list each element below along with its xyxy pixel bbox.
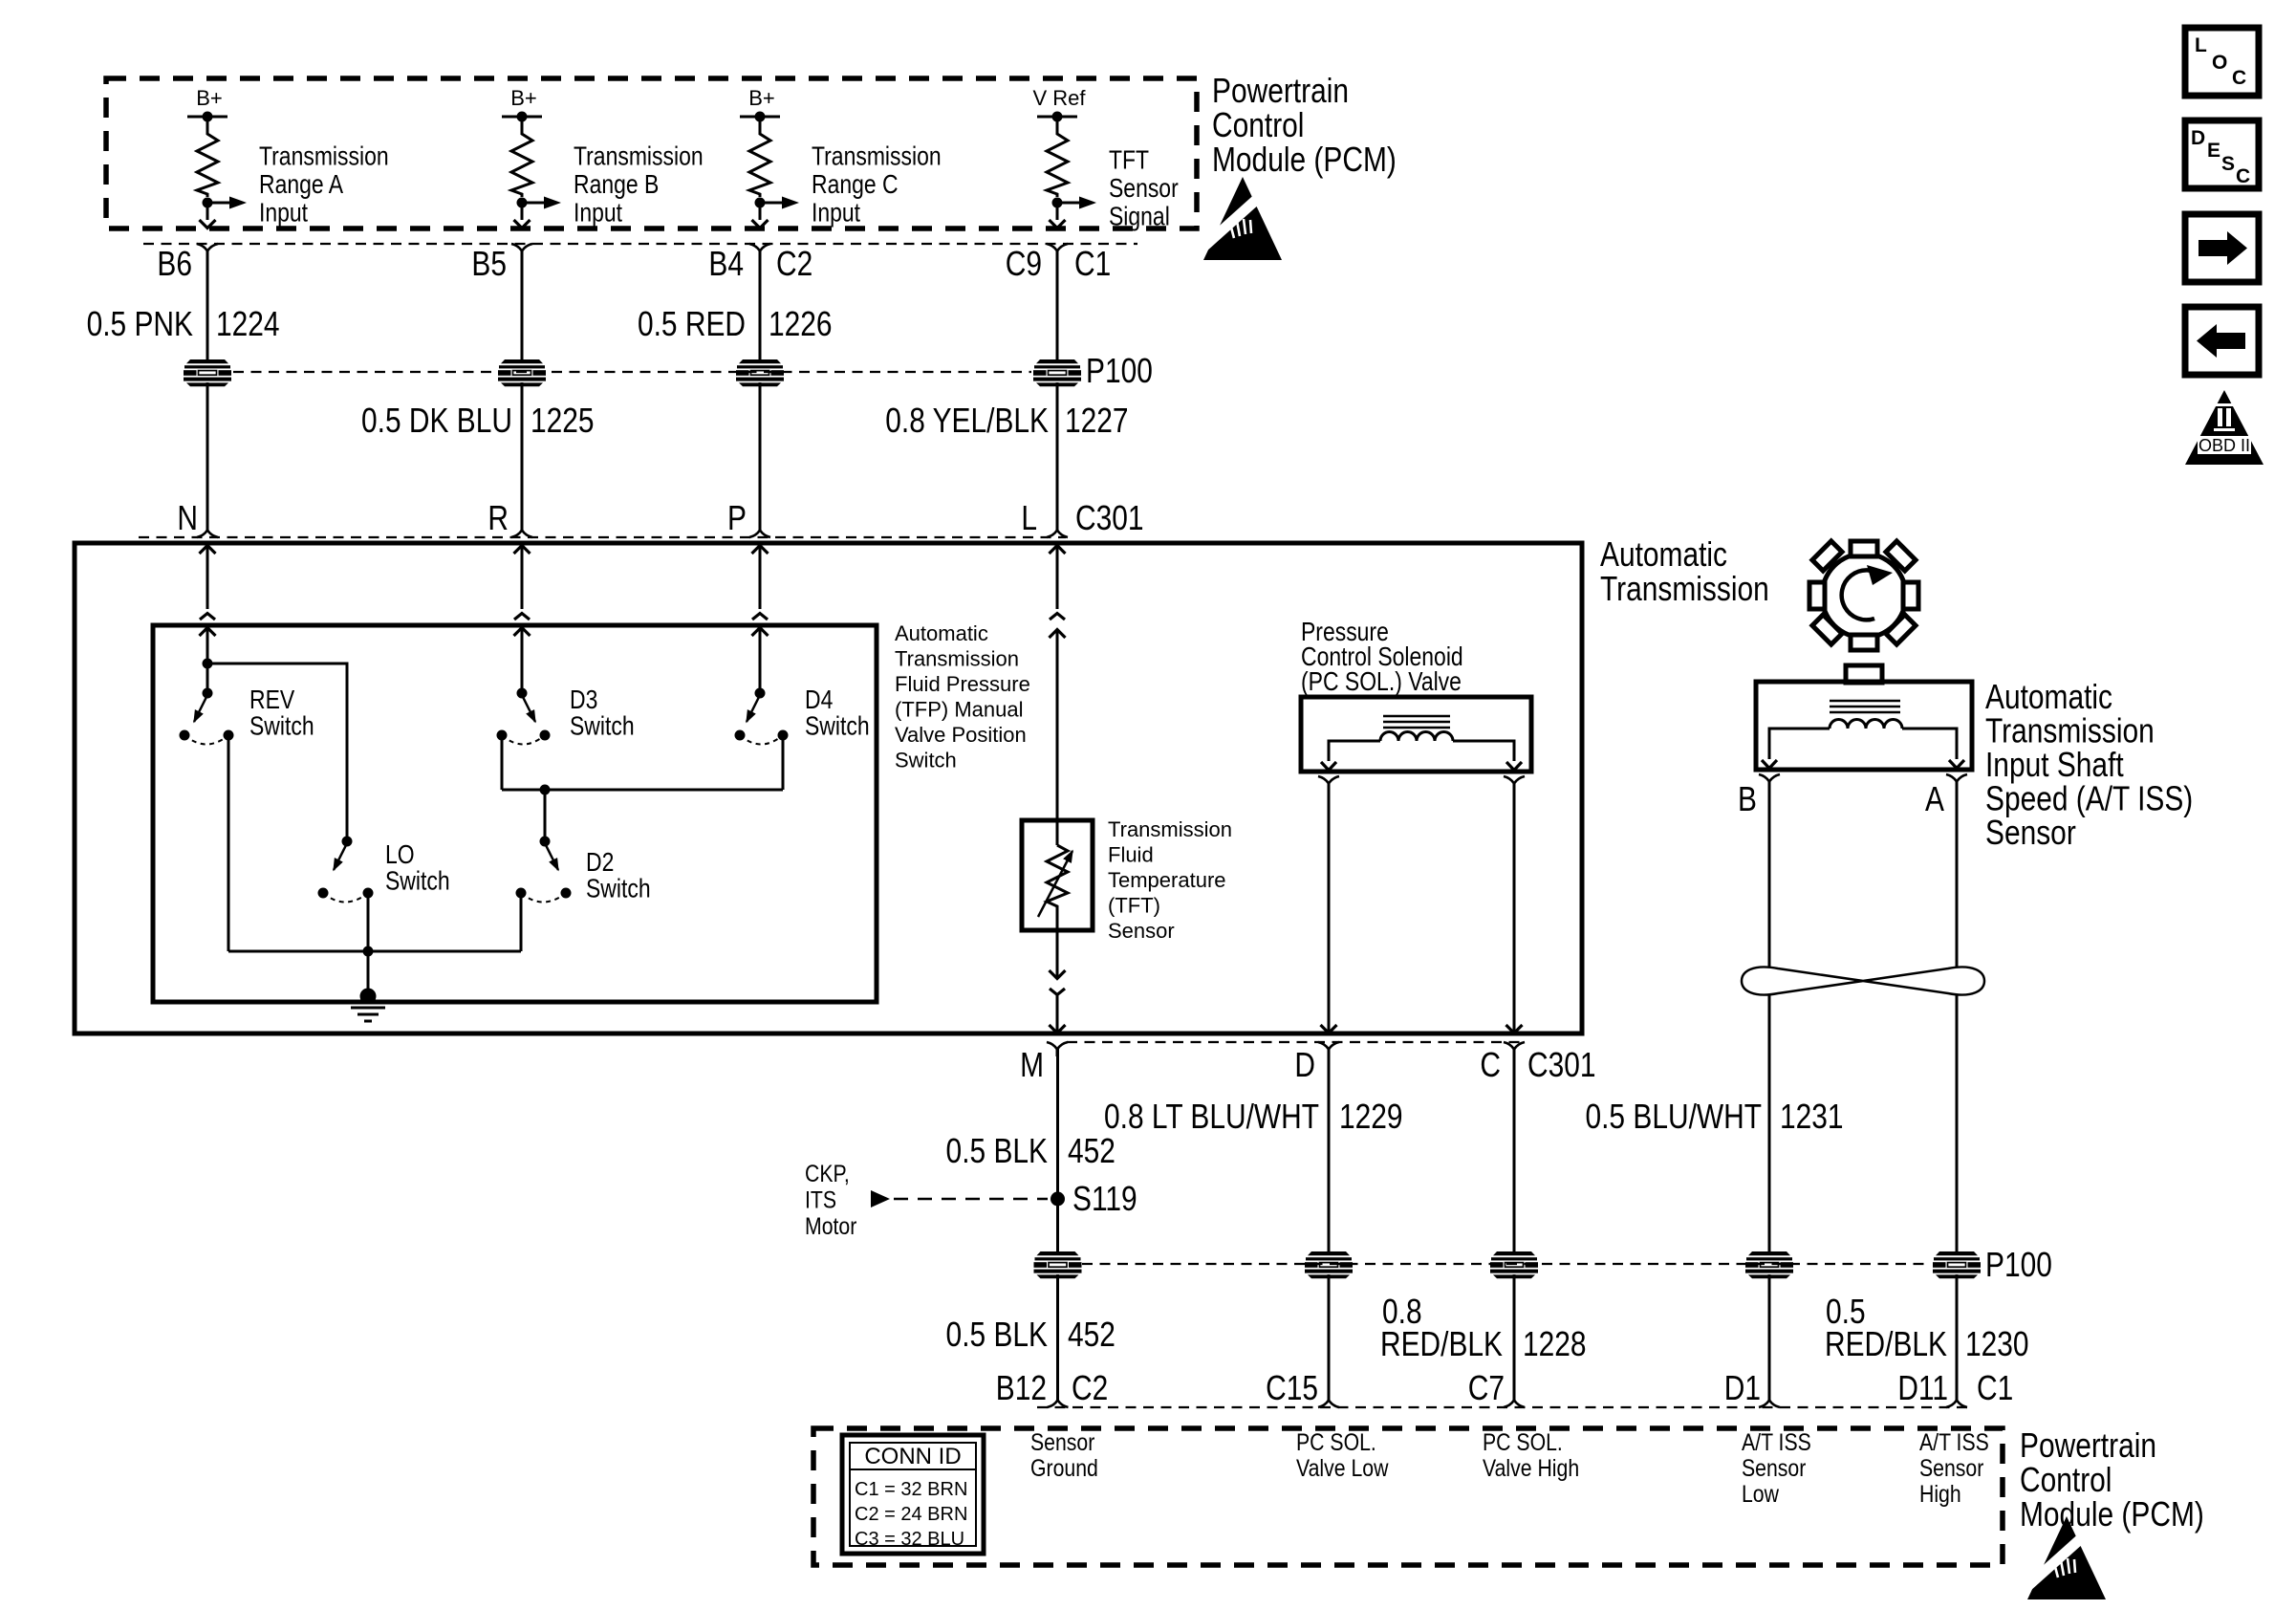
connector fork P xyxy=(749,523,770,537)
D4 switch pivot xyxy=(755,688,766,699)
connector line C301 bottom (thin dashed) xyxy=(1067,1041,1522,1043)
connector fork PC SOL low xyxy=(1318,776,1339,791)
ISS lead A xyxy=(1902,729,1957,759)
inline connector P100 xyxy=(184,359,231,386)
D4 switch blade xyxy=(747,695,760,722)
D2 switch contacts xyxy=(516,888,527,899)
svg-text:(TFP) Manual: (TFP) Manual xyxy=(895,698,1023,722)
PCM connector line bottom (thin dashed) xyxy=(1037,1406,1971,1408)
wire to P100 xyxy=(1056,251,1059,359)
svg-text:Automatic: Automatic xyxy=(1600,535,1727,574)
twisted pair symbol xyxy=(1742,967,1984,994)
svg-text:Valve High: Valve High xyxy=(1483,1454,1579,1481)
wire N into TFP switch xyxy=(200,628,216,637)
svg-text:L: L xyxy=(2195,34,2207,56)
svg-text:C2: C2 xyxy=(1072,1369,1108,1407)
svg-text:Fluid: Fluid xyxy=(1108,843,1154,867)
inline connector P100 xyxy=(1933,1251,1981,1278)
connector fork C xyxy=(1504,1042,1525,1056)
resistor Transmission Range C Input xyxy=(749,117,770,197)
svg-text:Transmission: Transmission xyxy=(1108,817,1232,841)
wire L to TFT sensor xyxy=(1050,630,1066,639)
svg-text:0.8 LT BLU/WHT: 0.8 LT BLU/WHT xyxy=(1104,1098,1319,1136)
svg-text:Switch: Switch xyxy=(805,711,870,741)
svg-text:CONN ID: CONN ID xyxy=(864,1444,961,1469)
connector fork pin B5 xyxy=(511,244,532,258)
svg-text:Transmission: Transmission xyxy=(259,141,389,171)
ISS lead B xyxy=(1769,729,1830,759)
icon LOC xyxy=(2185,28,2259,96)
svg-text:0.5 DK BLU: 0.5 DK BLU xyxy=(361,402,512,440)
inline connector P100 xyxy=(1490,1251,1538,1278)
D3 switch contacts xyxy=(497,730,508,741)
svg-text:Signal: Signal xyxy=(1109,202,1170,231)
connector fork D11 xyxy=(1946,1393,1967,1407)
svg-text:Ground: Ground xyxy=(1030,1454,1098,1481)
wire LO contact to bus xyxy=(367,893,370,951)
svg-text:D4: D4 xyxy=(805,685,833,715)
resistor Transmission Range B Input xyxy=(511,117,532,197)
svg-text:C1: C1 xyxy=(1074,245,1111,283)
svg-text:P100: P100 xyxy=(1985,1246,2052,1284)
PC SOL coil xyxy=(1380,732,1453,742)
wire P into TFP switch xyxy=(752,628,769,637)
D3 switch blade xyxy=(522,695,535,722)
PC SOL valve box xyxy=(1301,697,1531,772)
wire lower segment xyxy=(1956,1274,1959,1393)
svg-text:C: C xyxy=(1480,1046,1501,1084)
svg-text:Input: Input xyxy=(259,198,308,228)
svg-text:C3 = 32 BLU: C3 = 32 BLU xyxy=(855,1529,964,1550)
connector P100 dashed link (bottom) xyxy=(1082,1263,1931,1265)
svg-text:(TFT): (TFT) xyxy=(1108,894,1160,918)
svg-text:P100: P100 xyxy=(1086,352,1153,390)
wire M to box edge xyxy=(1056,995,1059,1033)
junction ground bus xyxy=(363,946,374,957)
svg-text:S119: S119 xyxy=(1072,1180,1137,1218)
svg-text:REV: REV xyxy=(249,685,294,715)
LO switch contacts xyxy=(318,888,329,899)
TFT sensor box xyxy=(1022,820,1093,930)
connector fork pin C9/C1 xyxy=(1047,244,1068,258)
svg-text:D11: D11 xyxy=(1897,1369,1948,1407)
wire M down xyxy=(1056,1049,1059,1252)
junction on wire N xyxy=(203,659,213,669)
ground bus wire xyxy=(228,950,521,953)
svg-text:(PC SOL.) Valve: (PC SOL.) Valve xyxy=(1301,667,1462,697)
svg-text:Transmission: Transmission xyxy=(812,141,942,171)
svg-text:C15: C15 xyxy=(1266,1369,1318,1407)
svg-text:CKP,: CKP, xyxy=(805,1160,850,1186)
wire entering box xyxy=(752,546,769,555)
connector fork L xyxy=(1047,523,1068,537)
connector fork pin B6 xyxy=(197,244,218,258)
svg-text:A: A xyxy=(1925,780,1945,818)
CKP pointer xyxy=(871,1190,890,1207)
break chevron xyxy=(514,614,530,620)
svg-text:Input: Input xyxy=(812,198,860,228)
D3 switch throw arc xyxy=(502,735,545,745)
wire to PCM box edge xyxy=(206,203,209,220)
svg-text:B+: B+ xyxy=(510,86,537,110)
svg-text:R: R xyxy=(487,499,509,537)
inline connector P100 xyxy=(736,359,784,386)
svg-text:Range B: Range B xyxy=(574,170,659,200)
svg-text:B+: B+ xyxy=(196,86,223,110)
ISS core xyxy=(1830,700,1900,703)
svg-text:Temperature: Temperature xyxy=(1108,868,1226,892)
svg-text:1229: 1229 xyxy=(1339,1098,1403,1136)
inline connector P100 xyxy=(1745,1251,1793,1278)
wire C down xyxy=(1513,1049,1516,1252)
wire segment xyxy=(1056,382,1059,523)
inline connector P100 xyxy=(1305,1251,1353,1278)
svg-text:Input: Input xyxy=(574,198,622,228)
break chevron xyxy=(200,614,215,620)
svg-text:Range C: Range C xyxy=(812,170,899,200)
icon DESC xyxy=(2185,120,2259,188)
D3 switch pivot xyxy=(517,688,528,699)
svg-text:0.8 YEL/BLK: 0.8 YEL/BLK xyxy=(885,402,1049,440)
wire link to D2 xyxy=(544,790,547,841)
svg-text:High: High xyxy=(1919,1480,1961,1507)
connector fork C7 xyxy=(1504,1393,1525,1407)
svg-text:OBD II: OBD II xyxy=(2199,436,2250,455)
junction + signal arrow xyxy=(517,198,528,208)
wire to PCM box edge xyxy=(759,203,762,220)
svg-text:D3: D3 xyxy=(570,685,597,715)
svg-text:452: 452 xyxy=(1068,1132,1116,1170)
svg-text:Powertrain: Powertrain xyxy=(2020,1426,2156,1465)
wire entering box xyxy=(514,546,531,555)
connector P100 dashed link xyxy=(233,371,1031,373)
TFP manual valve position switch box xyxy=(153,625,877,1002)
svg-text:V Ref: V Ref xyxy=(1032,86,1086,110)
PC SOL core xyxy=(1383,715,1450,718)
svg-text:A/T ISS: A/T ISS xyxy=(1919,1428,1989,1455)
connector fork N xyxy=(197,523,218,537)
svg-text:C9: C9 xyxy=(1006,245,1042,283)
svg-text:1231: 1231 xyxy=(1780,1098,1844,1136)
svg-text:Automatic: Automatic xyxy=(1985,678,2112,716)
inline connector P100 xyxy=(1034,1251,1082,1278)
ground stem xyxy=(367,951,370,994)
wire D2 contact to bus xyxy=(520,893,523,951)
svg-text:Speed (A/T ISS): Speed (A/T ISS) xyxy=(1985,780,2193,818)
svg-text:RED/BLK: RED/BLK xyxy=(1825,1325,1947,1363)
svg-text:ITS: ITS xyxy=(805,1186,836,1213)
connector fork B12 xyxy=(1048,1393,1069,1407)
wire D down xyxy=(1328,1049,1331,1252)
PCM connector line C1/C2 (thin dashed) xyxy=(143,243,1137,245)
svg-text:Sensor: Sensor xyxy=(1109,174,1179,204)
svg-text:Switch: Switch xyxy=(895,749,957,772)
svg-text:LO: LO xyxy=(385,840,415,870)
svg-text:Transmission: Transmission xyxy=(1985,712,2155,751)
svg-text:Low: Low xyxy=(1742,1480,1779,1507)
break chevron M xyxy=(1050,989,1065,995)
svg-text:B6: B6 xyxy=(157,245,192,283)
svg-text:C: C xyxy=(2232,67,2246,89)
svg-text:N: N xyxy=(177,499,198,537)
break chevron xyxy=(752,614,768,620)
TFT thermistor element xyxy=(1047,845,1068,930)
connector fork PC SOL high xyxy=(1504,776,1525,791)
wire R into TFP switch xyxy=(514,628,531,637)
wire ISS B down xyxy=(1768,782,1771,1252)
svg-text:Sensor: Sensor xyxy=(1919,1454,1984,1481)
LO switch throw arc xyxy=(323,893,368,903)
wire D down xyxy=(1328,784,1331,1033)
svg-text:C1 = 32 BRN: C1 = 32 BRN xyxy=(855,1479,967,1500)
D2 switch throw arc xyxy=(521,893,566,903)
wire segment xyxy=(759,382,762,523)
wire to P100 xyxy=(206,251,209,359)
svg-text:Motor: Motor xyxy=(805,1212,857,1239)
icon OBD II triangle xyxy=(2185,390,2264,465)
LO switch blade xyxy=(334,843,347,870)
svg-text:B4: B4 xyxy=(708,245,744,283)
svg-text:PC SOL.: PC SOL. xyxy=(1296,1428,1376,1455)
svg-text:Control: Control xyxy=(2020,1461,2112,1499)
icon arrow right xyxy=(2185,214,2259,282)
svg-text:C: C xyxy=(2236,165,2250,187)
D4 switch contacts xyxy=(735,730,746,741)
svg-text:Sensor: Sensor xyxy=(1030,1428,1095,1455)
wire entering box xyxy=(1050,546,1066,555)
wire to P100 xyxy=(521,251,524,359)
svg-text:1228: 1228 xyxy=(1523,1325,1587,1363)
wire junction N to LO switch xyxy=(207,664,347,841)
PC SOL lead low xyxy=(1329,741,1380,761)
CONN ID table xyxy=(842,1435,984,1554)
svg-text:Automatic: Automatic xyxy=(895,621,988,645)
svg-text:L: L xyxy=(1021,499,1037,537)
svg-text:Transmission: Transmission xyxy=(895,647,1019,671)
svg-text:452: 452 xyxy=(1068,1316,1116,1354)
svg-text:C2 = 24 BRN: C2 = 24 BRN xyxy=(855,1504,967,1525)
svg-text:S: S xyxy=(2221,153,2235,175)
wire segment xyxy=(206,382,209,523)
ISS coil xyxy=(1830,720,1902,729)
svg-text:Valve Position: Valve Position xyxy=(895,723,1027,747)
connector fork D xyxy=(1318,1042,1339,1056)
svg-text:Sensor: Sensor xyxy=(1108,919,1175,943)
wire D4 contact down xyxy=(782,735,785,790)
svg-text:Transmission: Transmission xyxy=(574,141,704,171)
svg-text:D2: D2 xyxy=(586,848,614,878)
REV switch blade xyxy=(194,695,207,722)
svg-text:1225: 1225 xyxy=(531,402,595,440)
resistor TFT Sensor Signal xyxy=(1047,117,1068,197)
A/T ISS gear icon xyxy=(1809,541,1918,650)
svg-text:PC SOL.: PC SOL. xyxy=(1483,1428,1563,1455)
connector line C301 (thin dashed) xyxy=(139,536,1066,538)
svg-text:RED/BLK: RED/BLK xyxy=(1380,1325,1503,1363)
wire lower segment xyxy=(1513,1274,1516,1393)
connector fork ISS B xyxy=(1759,774,1780,789)
wire to PCM box edge xyxy=(521,203,524,220)
D2 switch pivot xyxy=(540,837,551,847)
TFT variable arrow xyxy=(1038,851,1072,917)
link wire D3-D4 xyxy=(502,789,783,792)
connector fork pin B4/C2 xyxy=(749,244,770,258)
junction on link xyxy=(540,785,551,795)
svg-text:C1: C1 xyxy=(1977,1369,2013,1407)
wire ISS A down xyxy=(1956,782,1959,1252)
REV switch pivot xyxy=(203,688,213,699)
svg-text:Switch: Switch xyxy=(249,711,314,741)
svg-text:O: O xyxy=(2212,52,2227,74)
svg-text:D: D xyxy=(1294,1046,1315,1084)
svg-text:0.5 BLK: 0.5 BLK xyxy=(946,1132,1048,1170)
svg-text:B5: B5 xyxy=(471,245,507,283)
inline connector P100 xyxy=(1033,359,1081,386)
resistor Transmission Range A Input xyxy=(197,117,218,197)
svg-text:Range A: Range A xyxy=(259,170,344,200)
connector fork ISS A xyxy=(1946,774,1967,789)
svg-text:0.5 BLU/WHT: 0.5 BLU/WHT xyxy=(1585,1098,1762,1136)
svg-text:TFT: TFT xyxy=(1109,145,1149,175)
connector fork D1 xyxy=(1759,1393,1780,1407)
svg-text:Powertrain: Powertrain xyxy=(1212,72,1349,110)
ESD symbol top xyxy=(1201,177,1282,260)
svg-text:P: P xyxy=(727,499,747,537)
wire to PCM box edge xyxy=(1056,203,1059,220)
svg-text:0.5 PNK: 0.5 PNK xyxy=(87,305,193,343)
svg-text:Control: Control xyxy=(1212,106,1304,144)
junction + signal arrow xyxy=(755,198,766,208)
wire lower segment xyxy=(1328,1274,1331,1393)
svg-text:0.5 RED: 0.5 RED xyxy=(638,305,746,343)
D2 switch blade xyxy=(545,843,558,870)
D4 switch throw arc xyxy=(740,735,783,745)
svg-text:Module (PCM): Module (PCM) xyxy=(1212,141,1397,179)
ground xyxy=(360,989,377,1005)
svg-text:Switch: Switch xyxy=(586,874,651,903)
PC SOL lead high xyxy=(1453,741,1514,761)
wire M leaving TFT xyxy=(1056,930,1059,978)
svg-text:Transmission: Transmission xyxy=(1600,570,1769,608)
REV switch throw arc xyxy=(184,735,228,745)
svg-text:Module (PCM): Module (PCM) xyxy=(2020,1495,2204,1534)
A/T ISS sensor box xyxy=(1846,665,1882,683)
svg-text:Fluid Pressure: Fluid Pressure xyxy=(895,672,1030,696)
icon arrow left xyxy=(2185,307,2259,375)
svg-text:E: E xyxy=(2207,140,2220,162)
LO switch pivot xyxy=(342,837,353,847)
svg-text:A/T ISS: A/T ISS xyxy=(1742,1428,1811,1455)
svg-text:0.5 BLK: 0.5 BLK xyxy=(946,1316,1048,1354)
svg-text:Input Shaft: Input Shaft xyxy=(1985,746,2124,784)
svg-text:1230: 1230 xyxy=(1965,1325,2029,1363)
connector fork R xyxy=(511,523,532,537)
svg-text:D1: D1 xyxy=(1724,1369,1761,1407)
svg-text:D: D xyxy=(2191,127,2205,149)
svg-text:1224: 1224 xyxy=(216,305,280,343)
inline connector P100 xyxy=(498,359,546,386)
ESD symbol bottom xyxy=(2025,1516,2106,1599)
svg-text:C301: C301 xyxy=(1075,499,1144,537)
svg-text:C7: C7 xyxy=(1468,1369,1505,1407)
wire REV contact to bus xyxy=(227,735,230,951)
svg-text:1227: 1227 xyxy=(1065,402,1129,440)
splice S119 xyxy=(1051,1192,1065,1207)
connector fork M xyxy=(1047,1042,1068,1056)
wire segment xyxy=(521,382,524,523)
svg-text:C301: C301 xyxy=(1527,1046,1596,1084)
wire C down xyxy=(1513,784,1516,1033)
svg-text:1226: 1226 xyxy=(769,305,833,343)
svg-text:B+: B+ xyxy=(748,86,775,110)
PCM module box (bottom, dashed) xyxy=(813,1428,2003,1565)
svg-text:Valve Low: Valve Low xyxy=(1296,1454,1389,1481)
REV switch contacts xyxy=(180,730,190,741)
junction + signal arrow xyxy=(1052,198,1063,208)
break chevron xyxy=(1050,614,1065,620)
svg-text:Sensor: Sensor xyxy=(1985,814,2076,852)
svg-text:B: B xyxy=(1738,780,1757,818)
svg-text:M: M xyxy=(1020,1046,1044,1084)
wire to P100 xyxy=(759,251,762,359)
Automatic Transmission box xyxy=(75,543,1582,1033)
junction + signal arrow xyxy=(203,198,213,208)
svg-text:Switch: Switch xyxy=(385,866,450,896)
connector fork C15 xyxy=(1318,1393,1339,1407)
svg-text:Switch: Switch xyxy=(570,711,635,741)
wire lower segment xyxy=(1768,1274,1771,1393)
wire entering box xyxy=(200,546,216,555)
wire D3 contact down xyxy=(501,735,504,790)
svg-text:C2: C2 xyxy=(776,245,812,283)
svg-text:Sensor: Sensor xyxy=(1742,1454,1807,1481)
wire lower segment xyxy=(1056,1274,1059,1393)
svg-text:B12: B12 xyxy=(996,1369,1047,1407)
PCM module box (top, dashed) xyxy=(106,78,1197,228)
